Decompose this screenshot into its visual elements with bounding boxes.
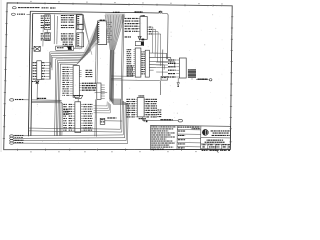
- IC U23 right pin stubs: [101, 84, 105, 86]
- scan edge shadow left: [0, 0, 3, 152]
- wires U31 right to verticals: [151, 26, 154, 28]
- wire crystal to vertical: [74, 47, 82, 49]
- wire PWRFLT: [141, 117, 143, 120]
- wire SLEI group line 2: [31, 100, 61, 102]
- IC U23 body: [97, 83, 101, 99]
- wire SLEI horizontal: [31, 99, 62, 101]
- IC U40 left pin labels: [168, 59, 170, 60]
- fan shading left of U20: [76, 22, 98, 64]
- label J5: [14, 137, 16, 138]
- IC U30 right extension rows: [157, 110, 159, 111]
- wire verticals right of U10: [49, 62, 51, 79]
- wire vertical from H2 to crystal: [81, 14, 84, 48]
- IC U21 body: [73, 66, 79, 98]
- fan shading bundle right of U20: [105, 13, 125, 50]
- connector terminal E2: [178, 119, 182, 122]
- label SLEI: [37, 98, 39, 99]
- wires cluster A to B verticals: [53, 15, 55, 45]
- gate A1 with X: [34, 46, 40, 51]
- label TA below U30: [139, 118, 141, 119]
- wire gate A2 down: [36, 84, 38, 100]
- gate A2 below U10: [35, 81, 39, 84]
- label J6: [14, 140, 16, 141]
- IC U33 body second column: [145, 50, 149, 77]
- label STL-01: [125, 36, 127, 37]
- connector J7 oval: [10, 142, 14, 144]
- IC U22 body: [75, 102, 81, 133]
- border zone ticks right: [231, 16, 233, 18]
- wire bottom line 1: [14, 134, 124, 137]
- connector terminal E1 at H1 end: [159, 11, 162, 13]
- wire vertical pair left of U31: [121, 14, 122, 100]
- wire L1 to terminal: [191, 78, 193, 79]
- crystal Y1 box: [56, 46, 74, 50]
- check mark slash: [217, 150, 219, 152]
- connector J3 left: [10, 99, 14, 101]
- wire long horizontal y80: [111, 79, 160, 82]
- border zone ticks left: [6, 11, 8, 13]
- label SHT-2 on H1: [135, 11, 137, 12]
- IC U6b group labels: [63, 42, 66, 43]
- title block divider h2: [201, 143, 231, 145]
- wire verticals long x55-61: [55, 59, 56, 136]
- border zone ticks top: [17, 2, 19, 4]
- revision column lines: [177, 129, 201, 131]
- wire top horizontal H2: [33, 12, 83, 15]
- border zone ticks bottom: [17, 149, 19, 151]
- gate mark below U40: [177, 78, 179, 83]
- label J7: [14, 142, 16, 143]
- size row header marks: [202, 143, 203, 146]
- IC U30 body: [137, 98, 144, 117]
- IC U20 top label: [100, 20, 103, 21]
- border zone numbers top: [30, 1, 31, 2]
- fan wires into U20: [89, 22, 97, 52]
- gate A3 trapezoid: [74, 95, 83, 98]
- label J4: [14, 135, 16, 136]
- wire fan bundle from top: [105, 15, 110, 50]
- relay K1 box: [100, 118, 105, 124]
- IC U4 group labels: [61, 15, 64, 16]
- wire bottom line 3: [14, 140, 127, 142]
- wire SLEI group line 3: [31, 102, 62, 104]
- title block divider v1: [176, 126, 178, 150]
- IC U20 right pin labels: [107, 21, 109, 23]
- label LT09: [141, 15, 142, 16]
- wire J3 to frame: [23, 99, 29, 101]
- label net name row 2: [17, 14, 18, 15]
- wire bottom line 4: [14, 142, 128, 144]
- wire bus main vertical V2: [31, 13, 33, 136]
- size row content marks: [202, 146, 204, 147]
- wire gate to frame: [31, 48, 34, 50]
- title block divider h1: [201, 137, 231, 139]
- connector terminal E3 circle: [209, 79, 212, 81]
- IC U10 pin labels: [33, 62, 35, 63]
- IC U5 group labels: [61, 25, 62, 26]
- buffer box column group 3: [77, 33, 84, 47]
- IC U3 group: [45, 33, 51, 41]
- inductor L1 coil: [188, 69, 196, 70]
- wire central band verticals: [109, 50, 112, 99]
- label PWRFLT: [160, 119, 163, 120]
- IC U40 body: [179, 58, 186, 78]
- box small right of U33: [161, 76, 168, 80]
- IC U22 left pin labels: [63, 104, 65, 105]
- scan noise speckle: [40, 112, 43, 115]
- label above fan bundle: [113, 12, 114, 13]
- title block divider h3: [201, 148, 231, 150]
- buffer box column group 1: [77, 15, 84, 24]
- wires into U40 from left: [156, 61, 168, 63]
- crystal X symbol: [68, 47, 72, 50]
- connector J5 oval: [10, 137, 14, 139]
- drawing title text: [206, 140, 209, 141]
- wire bottom short lines from frame: [29, 128, 120, 129]
- size fscm cells verticals: [206, 144, 208, 149]
- wire bus 8 lines horizontal: [50, 51, 89, 54]
- connector J1 top-left: [12, 7, 16, 9]
- marks between U32 U33: [141, 50, 142, 53]
- IC U31 body: [140, 17, 147, 40]
- IC U2 group: [45, 24, 51, 29]
- revision header text: [178, 127, 180, 128]
- IC U30 right marks: [144, 98, 145, 100]
- label net name row 1: [18, 7, 20, 8]
- IC U22 right marks: [81, 103, 83, 105]
- wire relay to bus: [105, 120, 123, 122]
- label terminal E3: [198, 79, 200, 80]
- wire U23 verticals continue down: [94, 99, 97, 136]
- oscillator box with X: [135, 42, 143, 46]
- IC U6 group labels: [61, 33, 63, 34]
- gate A4 below U30: [143, 118, 146, 121]
- wire stubs cluster A: [42, 25, 44, 33]
- wire band split right y76-80: [111, 75, 131, 77]
- revision cell marks: [178, 131, 180, 132]
- notes text block: [151, 126, 152, 127]
- company text rows: [211, 130, 213, 131]
- label J3: [15, 99, 16, 100]
- IC U20 body: [98, 21, 107, 45]
- wire bus main vertical V1: [28, 11, 30, 136]
- IC U30 left pin labels: [126, 99, 128, 100]
- wire J2 to frame: [27, 13, 31, 15]
- IC U32 left pin labels: [127, 49, 128, 50]
- label U-100: [107, 117, 109, 118]
- border zone numbers bottom: [30, 151, 31, 152]
- title block outline: [150, 125, 230, 150]
- IC U20 left pin ticks: [98, 21, 100, 24]
- connector J2: [12, 13, 16, 15]
- wire vertical before box column: [75, 14, 78, 47]
- connector J4 oval: [10, 135, 14, 137]
- gate A5: [138, 36, 141, 40]
- scale sheet row: [202, 150, 203, 151]
- connector J6 oval: [10, 140, 14, 142]
- IC U31 left pin labels: [125, 18, 126, 19]
- IC U32 body: [135, 48, 141, 77]
- fan crosshatch from boxes: [84, 16, 91, 50]
- IC U31 right pins: [147, 26, 149, 28]
- logo LSI circle: [202, 130, 208, 136]
- wire U20 bottom pins down to U23: [95, 43, 98, 83]
- title block divider v2: [200, 126, 202, 150]
- wire verticals to right cluster: [166, 53, 168, 59]
- IC U10 body: [37, 61, 42, 80]
- IC U21 left pin labels: [62, 66, 64, 69]
- wire bottom line 2: [14, 137, 125, 140]
- wire top horizontal H1: [30, 11, 159, 13]
- wire bus left corners into U10: [49, 52, 51, 63]
- wire gate A3 down: [77, 99, 79, 102]
- sheet border frame: [4, 3, 233, 150]
- marks below U21: [74, 95, 75, 96]
- wire E1 to V3 with corner: [162, 13, 168, 59]
- IC U21 right marks: [79, 69, 81, 71]
- wire fan right of U22: [94, 105, 107, 107]
- wires U32 right: [150, 52, 167, 54]
- buffer box column group 2: [77, 25, 84, 30]
- IC U1 group: [45, 15, 51, 24]
- label LT04: [138, 95, 139, 96]
- wire U23 to band: [95, 92, 108, 94]
